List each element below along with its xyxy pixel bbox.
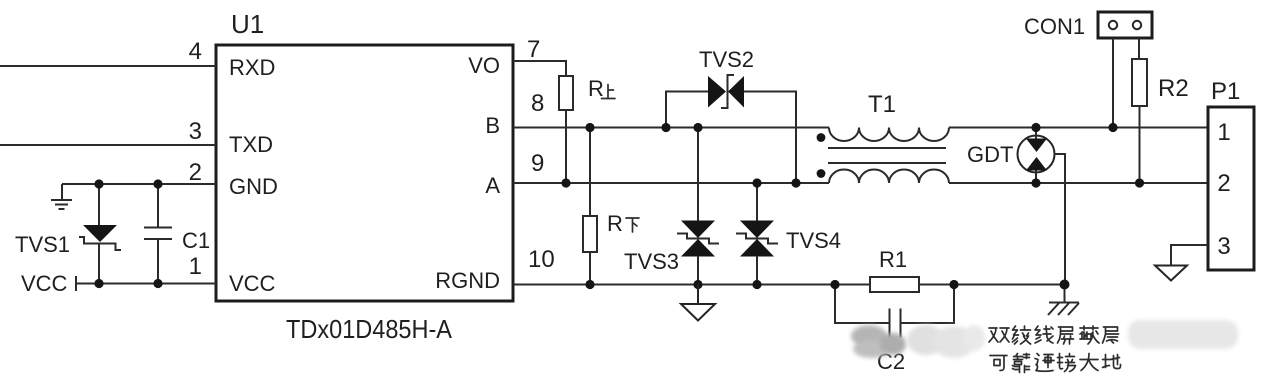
svg-text:R: R	[588, 76, 604, 101]
R-down body	[583, 216, 597, 252]
ground symbol (signal ground at GND net)	[51, 184, 72, 209]
junction RGND-TVS4	[752, 280, 761, 289]
TVS2 right stub to A	[744, 92, 796, 184]
junction B-Rdown	[585, 123, 594, 132]
wire GND pin 2	[62, 183, 216, 185]
svg-text:1: 1	[189, 253, 202, 280]
svg-text:4: 4	[189, 38, 202, 65]
junction A-GDT	[1031, 178, 1040, 187]
GDT earth electrode wire	[1055, 154, 1066, 285]
svg-text:CON1: CON1	[1024, 14, 1085, 39]
junction RGND-Rdown	[585, 280, 594, 289]
TVS2 left triangle	[708, 76, 726, 108]
TVS diode TVS4 upper lead from A	[756, 183, 758, 221]
VCC terminal bar	[75, 276, 77, 291]
GDT bottom lead	[1035, 169, 1037, 183]
svg-text:C1: C1	[182, 228, 210, 253]
C1 plates	[144, 228, 172, 240]
T1 core lines	[828, 148, 946, 163]
junction line2-R2	[1135, 178, 1144, 187]
TVS diode TVS1 vertical lead	[98, 184, 100, 284]
TVS3 lower lead to RGND	[697, 256, 699, 285]
junction VCC-TVS1	[94, 279, 103, 288]
junction A-TVS2	[791, 178, 800, 187]
CON1 left lead to line1	[1112, 38, 1114, 128]
wire TXD pin 3	[0, 144, 216, 146]
svg-text:TDx01D485H-A: TDx01D485H-A	[286, 314, 453, 344]
junction RGND-TVS3	[693, 280, 702, 289]
junction line1-CON1	[1108, 123, 1117, 132]
svg-text:RGND: RGND	[435, 268, 500, 293]
subscript xia glyph	[626, 218, 639, 232]
TVS diode TVS2 left stub from B	[666, 92, 708, 128]
GDT lower triangle	[1026, 157, 1047, 171]
wire VCC pin 1	[76, 283, 216, 285]
TVS4 center bar	[736, 234, 778, 244]
svg-text:P1: P1	[1211, 78, 1240, 105]
CON1 left pin circle	[1109, 21, 1117, 29]
subscript shang glyph	[602, 85, 616, 99]
junction B-TVS2	[661, 123, 670, 132]
TVS3 upper triangle	[681, 221, 715, 239]
GDT top lead	[1035, 128, 1037, 141]
watermark blob light right	[1128, 320, 1238, 349]
svg-text:TVS1: TVS1	[15, 232, 70, 257]
svg-text:1: 1	[1217, 119, 1230, 146]
junction RGND-earth	[1060, 280, 1070, 290]
resistor R-up body	[559, 76, 573, 110]
connector P1 body	[1208, 107, 1254, 270]
TVS3 lower triangle	[681, 239, 715, 257]
IC U1 body	[216, 45, 513, 301]
svg-text:VCC: VCC	[229, 271, 276, 296]
svg-text:3: 3	[189, 118, 202, 145]
TVS1 triangle	[83, 225, 117, 242]
svg-text:RXD: RXD	[229, 55, 275, 80]
svg-text:TVS4: TVS4	[786, 228, 841, 253]
TVS1 zener bar	[79, 237, 121, 250]
junction B-GDT	[1031, 123, 1040, 132]
transformer T1 primary winding	[829, 128, 949, 142]
T1 primary phase dot	[817, 133, 826, 142]
connector CON1 body	[1098, 12, 1152, 38]
wire B pin 8 (chip to transformer)	[513, 127, 829, 129]
resistor R1 body on RGND line	[870, 277, 919, 292]
wire line2 A (transformer to P1)	[949, 182, 1208, 184]
R2 lower lead to line2	[1139, 106, 1141, 183]
TVS2 center bar	[721, 75, 734, 108]
wire line1 B (transformer to P1)	[949, 127, 1208, 129]
svg-text:7: 7	[527, 36, 540, 63]
T1 secondary winding	[829, 170, 949, 184]
GDT upper triangle	[1026, 139, 1047, 153]
svg-text:3: 3	[1217, 233, 1230, 260]
junction GND-C1	[153, 179, 162, 188]
svg-text:TVS3: TVS3	[624, 249, 679, 274]
junction GND-TVS1	[94, 179, 103, 188]
junction RGND-R1C2 left	[830, 280, 839, 289]
junction RGND-R1C2 right	[949, 280, 958, 289]
wire RGND pin 10	[513, 284, 1064, 286]
svg-text:2: 2	[1217, 170, 1230, 197]
watermark blob light middle	[907, 325, 985, 358]
watermark blob dark near C2	[851, 325, 906, 358]
resistor R2 body	[1132, 59, 1147, 106]
R-down lower lead to RGND	[589, 252, 591, 285]
earth ground symbol (shield to earth)	[1048, 285, 1079, 316]
CON1 right pin circle	[1133, 21, 1141, 29]
TVS4 lower triangle	[740, 239, 774, 257]
svg-text:10: 10	[528, 246, 555, 273]
svg-text:8: 8	[531, 90, 544, 117]
T1 secondary phase dot	[817, 169, 826, 178]
R-up lower lead to A	[565, 110, 567, 183]
svg-text:A: A	[485, 173, 500, 198]
TVS diode TVS3 upper lead from B	[697, 128, 699, 222]
svg-text:TXD: TXD	[229, 132, 273, 157]
capacitor C1 leads	[157, 184, 159, 284]
junction B-TVS3	[693, 123, 702, 132]
svg-text:9: 9	[531, 150, 544, 177]
gas discharge tube GDT circle	[1018, 136, 1055, 173]
capacitor C2 loop left	[835, 285, 890, 324]
svg-text:R1: R1	[879, 247, 907, 272]
wire VO pin 7	[513, 61, 566, 76]
resistor R-down upper lead from B	[589, 128, 591, 217]
CON1 right lead to R2	[1138, 38, 1140, 59]
C2 loop right	[901, 285, 955, 324]
svg-text:U1: U1	[231, 9, 264, 39]
svg-text:2: 2	[189, 159, 202, 186]
TVS4 lower lead to RGND	[756, 256, 758, 285]
junction B/R-up crossing none; junction A-Rup	[561, 178, 570, 187]
P1 pin3 wire	[1171, 245, 1208, 265]
junction A-TVS4	[752, 178, 761, 187]
svg-text:VCC: VCC	[21, 271, 68, 296]
svg-text:T1: T1	[868, 91, 896, 118]
svg-text:TVS2: TVS2	[699, 47, 754, 72]
note text line2: ke kao lian jie da di	[990, 354, 1121, 373]
note text line1: shuang jiao xian ping bi ceng	[989, 326, 1119, 344]
junction VCC-C1	[153, 279, 162, 288]
svg-text:GDT: GDT	[967, 142, 1013, 167]
TVS2 right triangle	[728, 76, 744, 108]
TVS3 center bar	[677, 234, 719, 244]
wire RXD pin 4	[0, 65, 216, 67]
svg-text:GND: GND	[229, 174, 278, 199]
TVS4 upper triangle	[740, 221, 774, 239]
svg-text:R: R	[607, 211, 623, 236]
svg-text:B: B	[485, 113, 500, 138]
svg-text:R2: R2	[1158, 75, 1189, 102]
chassis ground at P1 pin3 (open triangle)	[1155, 266, 1187, 281]
chassis ground under TVS3 (open triangle)	[681, 285, 715, 321]
svg-text:VO: VO	[468, 53, 500, 78]
C2 plates	[890, 309, 901, 338]
wire A pin 9 (chip to transformer)	[513, 182, 829, 184]
